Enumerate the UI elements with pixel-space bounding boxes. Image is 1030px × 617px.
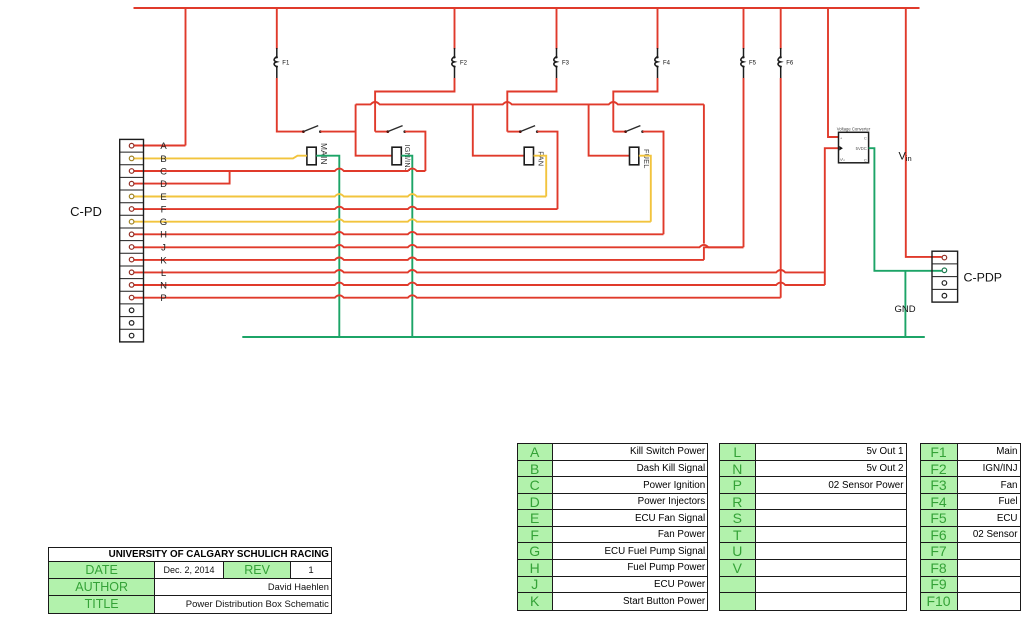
wire: row P O2 sensor power	[134, 295, 781, 297]
wire: row C power ignition	[134, 169, 425, 171]
svg-text:A: A	[160, 141, 167, 152]
title block table	[48, 547, 332, 613]
svg-text:Voltage Converter: Voltage Converter	[837, 127, 871, 132]
svg-text:N: N	[160, 280, 167, 291]
svg-text:FAN: FAN	[536, 151, 545, 166]
wire: converter pin to rows L and N	[825, 148, 839, 285]
svg-text:F1: F1	[282, 61, 290, 67]
svg-text:F3: F3	[562, 61, 570, 67]
svg-text:Vin: Vin	[899, 151, 912, 164]
wire: row N 5v out 2	[134, 283, 825, 285]
relay coil FUEL	[630, 147, 639, 165]
pin table C-PD A-K	[517, 443, 709, 610]
wire: rail end joins row J	[704, 246, 744, 248]
wire: GND drop	[904, 271, 906, 337]
wire: row A kill switch power	[134, 145, 186, 147]
wire: F5 down to ECU power row J	[743, 78, 745, 247]
svg-text:F2: F2	[460, 61, 468, 67]
fuse F6	[778, 8, 794, 78]
svg-text:C: C	[160, 166, 167, 177]
svg-text:B: B	[160, 154, 166, 165]
svg-text:GND: GND	[894, 304, 915, 315]
wire: bus Vin to C-PDP pin 1	[906, 8, 942, 257]
wire: F2 down-jog to IGN/INJ switch	[375, 78, 454, 132]
wire: FUEL coil to row G	[639, 156, 651, 222]
fuse F3	[554, 8, 570, 78]
wire: IGN/INJ coil to ground bus	[401, 156, 412, 337]
wire: F4 down-jog to FUEL switch	[613, 78, 657, 132]
switch contact IGN/INJ	[386, 126, 406, 133]
fuse F2	[452, 8, 468, 78]
wire: into IGN/INJ switch	[375, 131, 387, 133]
relay coil MAIN	[307, 147, 316, 165]
wire: MAIN coil to ground bus	[316, 156, 339, 337]
svg-text:D: D	[160, 179, 167, 190]
relay coil FAN	[524, 147, 533, 165]
wire: rail drop to row K	[703, 247, 705, 260]
wire: row J ECU power	[134, 245, 744, 247]
svg-text:Vᴵₙ: Vᴵₙ	[840, 158, 845, 162]
wire: F1 to MAIN switch	[277, 78, 303, 132]
wire: rail down to FAN coil input	[473, 104, 524, 155]
svg-text:5VDC: 5VDC	[856, 146, 867, 151]
svg-text:C: C	[864, 158, 867, 163]
svg-text:C: C	[864, 136, 867, 141]
fuse F4	[655, 8, 671, 78]
wire: bus to converter Vin pin	[828, 8, 839, 137]
wire: FUEL contact output down to row H	[643, 132, 664, 235]
connector C-PDP	[932, 251, 958, 302]
svg-text:P: P	[160, 293, 166, 304]
wire: row D power injectors joins row C	[134, 171, 230, 184]
svg-text:G: G	[160, 217, 167, 228]
svg-text:F: F	[161, 205, 167, 216]
wire: rail down to FUEL coil input	[589, 104, 630, 155]
wire: rail down to IGN/INJ coil input	[356, 104, 392, 155]
wire: into FUEL switch	[613, 131, 624, 133]
relay coil IGN/INJ	[392, 147, 401, 165]
wire: bus drop to pin A	[185, 8, 187, 146]
fuse F1	[274, 8, 290, 78]
switch contact FAN	[519, 126, 539, 133]
wire: F3 down-jog to FAN switch	[507, 78, 556, 132]
svg-text:K: K	[160, 255, 167, 266]
svg-text:FUEL: FUEL	[642, 149, 651, 168]
wire: converter 5V output to C-PDP pin 2	[869, 148, 942, 271]
wire: F6 down to O2 sensor row P	[780, 78, 782, 298]
svg-text:C-PDP: C-PDP	[964, 271, 1003, 285]
svg-text:MAIN: MAIN	[319, 143, 329, 165]
wire: into FAN switch	[507, 131, 519, 133]
svg-text:H: H	[160, 230, 167, 241]
svg-text:IGN/INJ: IGN/INJ	[403, 145, 412, 172]
wire: row B dash kill signal to MAIN coil	[134, 156, 307, 159]
voltage converter U1	[837, 127, 871, 163]
connector C-PD	[120, 139, 144, 342]
svg-text:F4: F4	[663, 61, 671, 67]
svg-text:F5: F5	[749, 61, 757, 67]
pin table L-V	[719, 443, 907, 610]
wire: ground bus	[242, 336, 925, 338]
svg-text:E: E	[160, 192, 166, 203]
wire: row K start button power	[134, 258, 704, 260]
svg-text:C-PD: C-PD	[70, 204, 102, 219]
wire: rail end drop	[703, 104, 705, 243]
wire: MAIN contact output to rail tap	[320, 131, 355, 133]
fuse F5	[741, 8, 757, 78]
fuse table F1-F10	[920, 443, 1021, 610]
wire: FAN contact output down to row F	[537, 132, 557, 210]
svg-text:L: L	[161, 268, 166, 279]
switch contact MAIN	[302, 126, 322, 133]
svg-text:J: J	[161, 243, 166, 254]
wire: top +12V bus	[134, 7, 920, 9]
wire: row G ECU fuel pump signal	[134, 219, 651, 221]
wire: IGN/INJ contact output down to row C	[405, 132, 426, 171]
wire: row H fuel pump power	[134, 232, 664, 234]
svg-text:F6: F6	[786, 61, 794, 67]
switch contact FUEL	[624, 126, 644, 133]
wire: row L 5v out 1	[134, 270, 825, 272]
wire: row E ECU fan signal	[134, 194, 546, 196]
wire: switched power rail	[356, 102, 704, 104]
wire: FAN coil to row E	[534, 156, 547, 197]
wire: row F fan power	[134, 207, 558, 209]
